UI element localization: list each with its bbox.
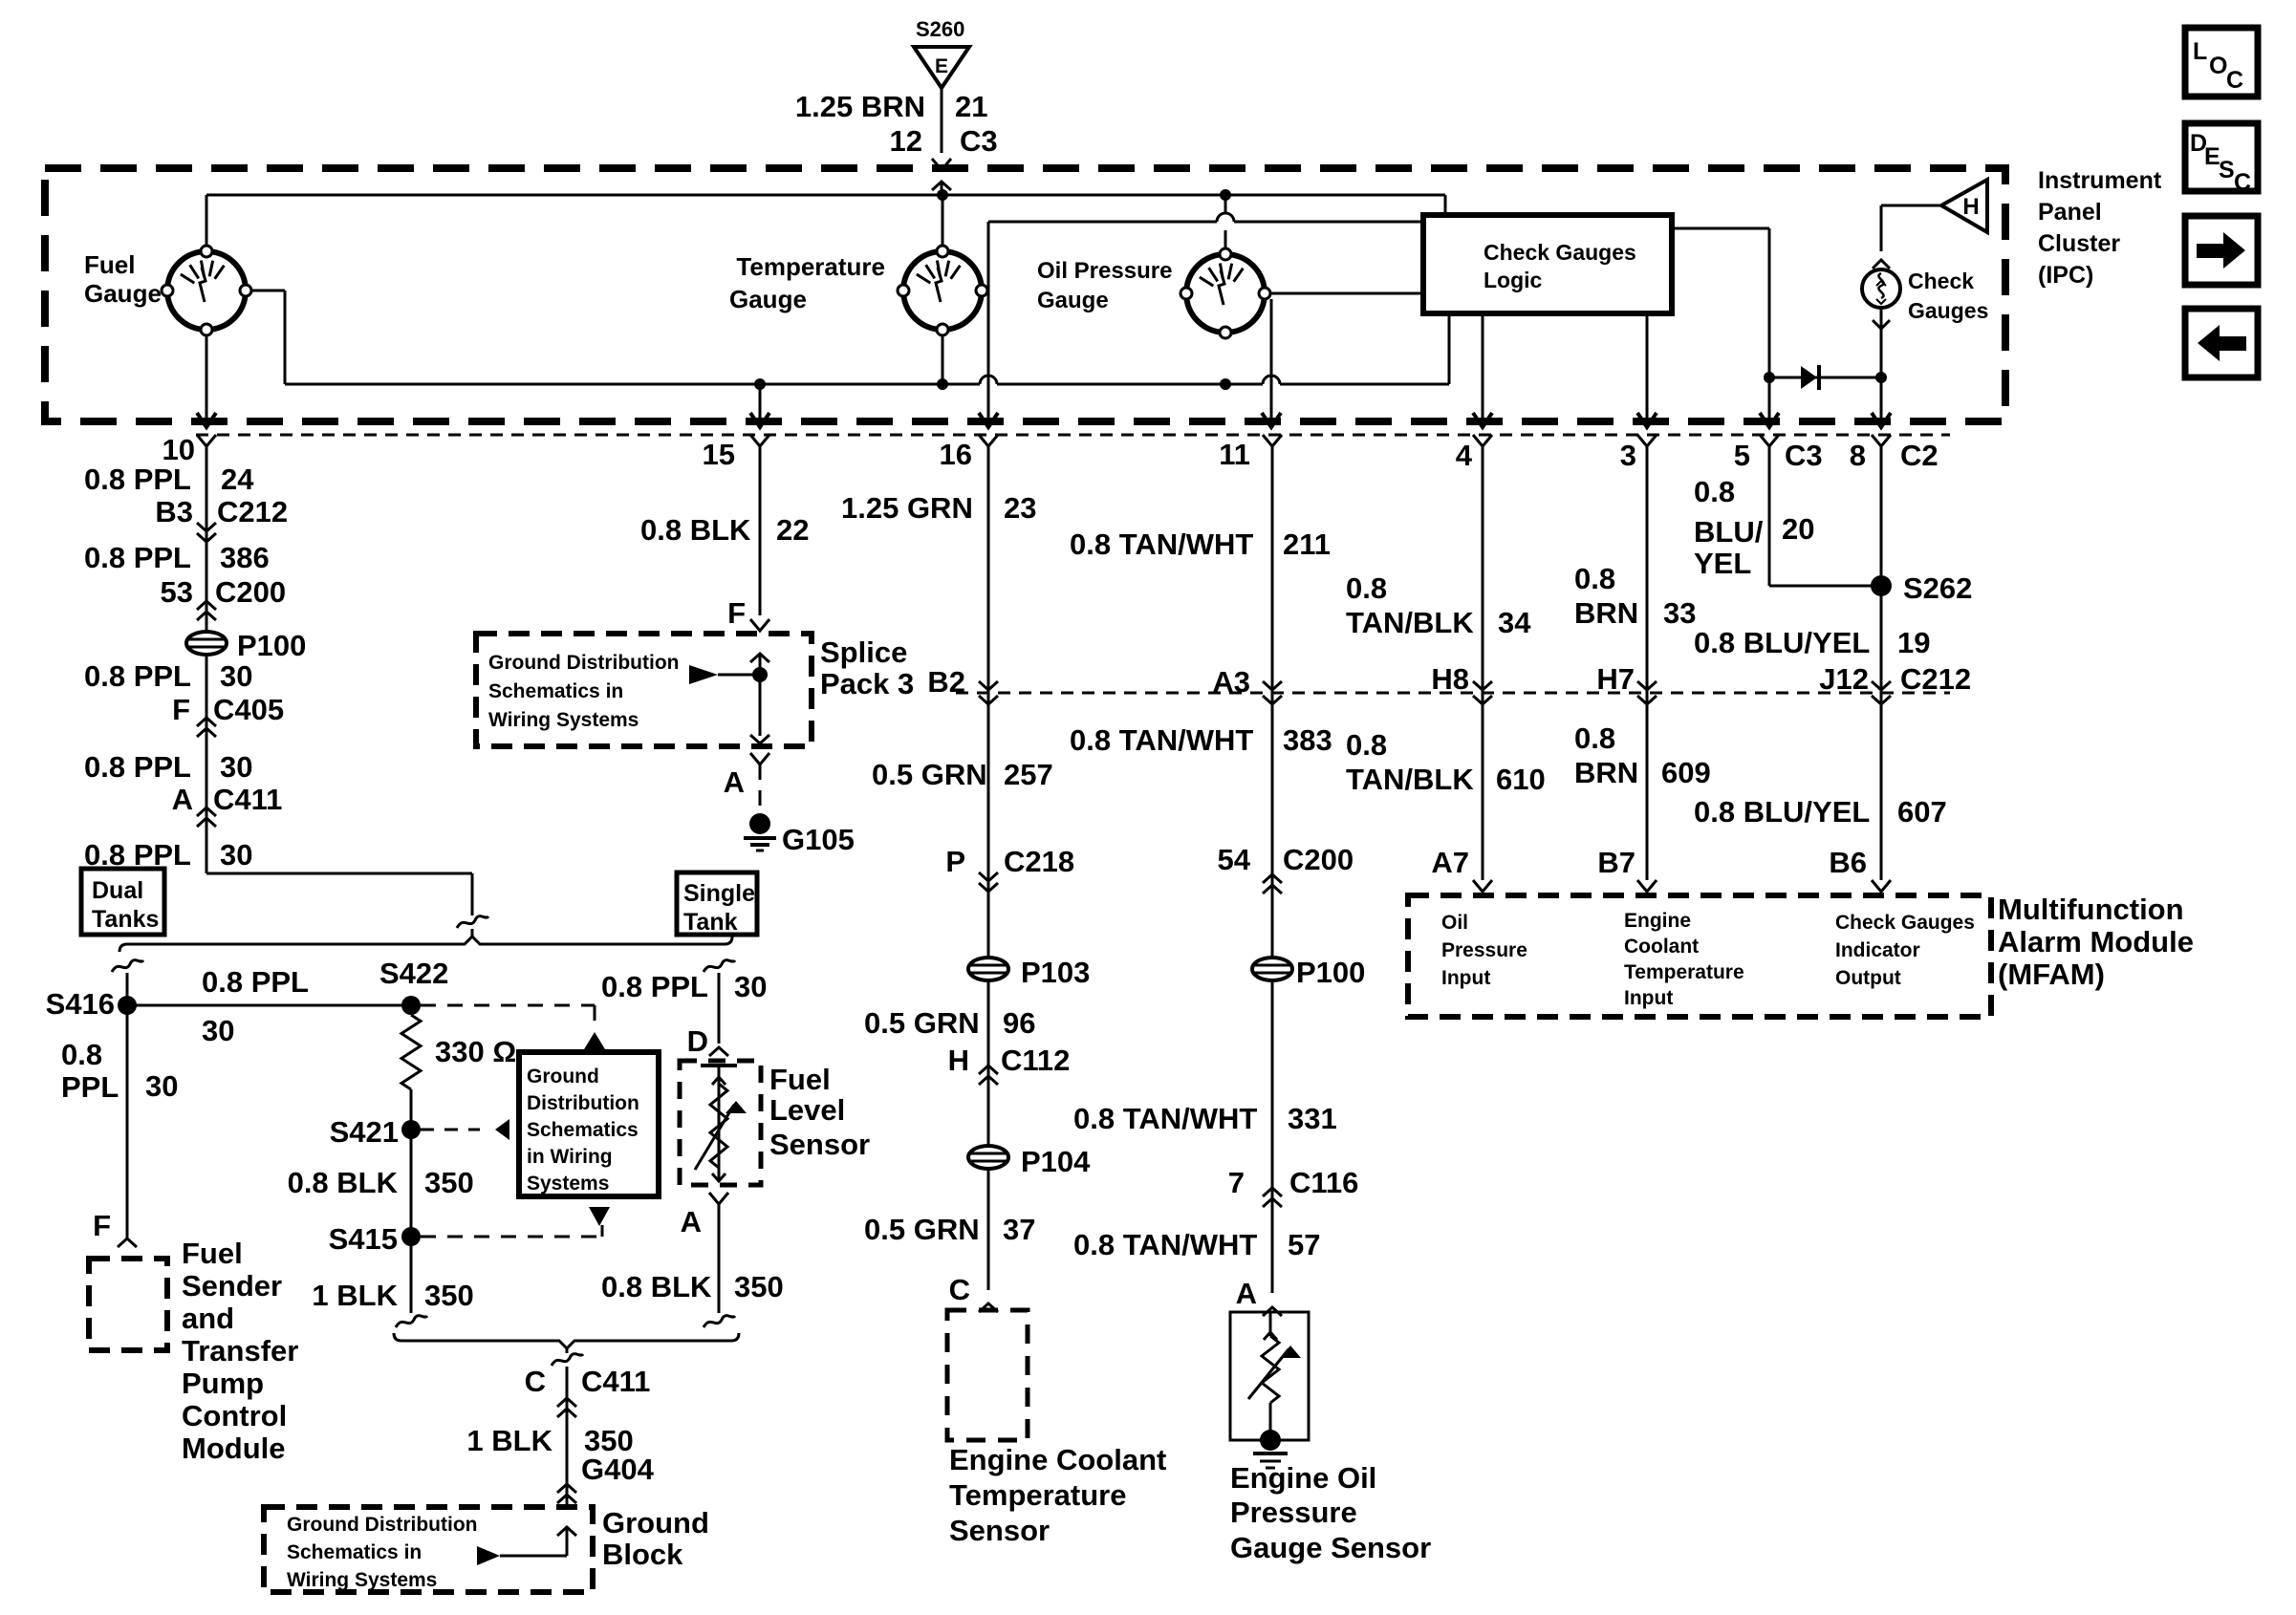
svg-text:TAN/BLK: TAN/BLK: [1346, 606, 1474, 639]
svg-text:1.25 BRN: 1.25 BRN: [795, 90, 925, 123]
svg-text:54: 54: [1218, 843, 1251, 876]
svg-text:1 BLK: 1 BLK: [466, 1424, 552, 1457]
svg-text:Temperature: Temperature: [1624, 961, 1744, 983]
svg-text:Multifunction: Multifunction: [1998, 893, 2184, 926]
svg-text:S422: S422: [379, 957, 448, 990]
svg-text:Gauges: Gauges: [1908, 298, 1988, 323]
svg-text:in Wiring: in Wiring: [527, 1146, 613, 1168]
svg-text:Pack 3: Pack 3: [820, 667, 914, 700]
svg-text:Module: Module: [182, 1432, 286, 1465]
svg-text:0.8 BLK: 0.8 BLK: [640, 513, 751, 547]
svg-text:Transfer: Transfer: [182, 1334, 298, 1367]
svg-text:0.8 BLU/YEL: 0.8 BLU/YEL: [1694, 626, 1870, 659]
svg-text:C200: C200: [1283, 843, 1354, 876]
svg-text:0.8 PPL: 0.8 PPL: [84, 463, 191, 496]
svg-text:Schematics in: Schematics in: [287, 1541, 422, 1563]
svg-text:Panel: Panel: [2038, 199, 2102, 226]
svg-text:Check Gauges: Check Gauges: [1835, 912, 1975, 934]
svg-text:H: H: [1962, 194, 1979, 220]
svg-text:19: 19: [1897, 626, 1930, 659]
svg-text:0.8 BLU/YEL: 0.8 BLU/YEL: [1694, 795, 1870, 829]
svg-text:8: 8: [1850, 439, 1866, 472]
svg-text:Level: Level: [769, 1093, 845, 1127]
svg-text:PPL: PPL: [61, 1070, 119, 1104]
svg-text:P100: P100: [1296, 956, 1365, 989]
svg-text:0.8 TAN/WHT: 0.8 TAN/WHT: [1070, 528, 1253, 561]
svg-text:Temperature: Temperature: [736, 252, 885, 281]
svg-text:Alarm Module: Alarm Module: [1998, 925, 2194, 958]
svg-text:Logic: Logic: [1484, 268, 1543, 292]
svg-text:Output: Output: [1835, 967, 1901, 989]
svg-text:3: 3: [1620, 439, 1636, 472]
svg-text:Schematics in: Schematics in: [488, 680, 623, 702]
svg-text:and: and: [182, 1302, 234, 1335]
svg-text:P100: P100: [237, 629, 306, 662]
svg-text:Single: Single: [683, 880, 755, 907]
svg-text:30: 30: [202, 1014, 234, 1047]
svg-text:30: 30: [220, 750, 252, 784]
svg-text:0.8: 0.8: [1574, 562, 1615, 595]
svg-text:BLU/: BLU/: [1694, 515, 1764, 549]
svg-text:C411: C411: [581, 1365, 650, 1398]
svg-text:Systems: Systems: [527, 1173, 609, 1195]
svg-text:F: F: [727, 596, 746, 630]
svg-text:F: F: [93, 1209, 111, 1242]
svg-text:(IPC): (IPC): [2038, 262, 2093, 289]
svg-text:Oil Pressure: Oil Pressure: [1037, 258, 1172, 284]
svg-text:YEL: YEL: [1694, 547, 1751, 580]
svg-text:0.5 GRN: 0.5 GRN: [864, 1213, 980, 1246]
svg-text:Check Gauges: Check Gauges: [1484, 240, 1636, 265]
svg-text:20: 20: [1782, 512, 1814, 546]
svg-text:0.8 BLK: 0.8 BLK: [601, 1270, 712, 1303]
svg-text:TAN/BLK: TAN/BLK: [1346, 763, 1474, 796]
svg-text:Cluster: Cluster: [2038, 230, 2120, 257]
svg-text:BRN: BRN: [1574, 596, 1638, 630]
svg-text:Tanks: Tanks: [92, 906, 159, 933]
svg-text:Gauge: Gauge: [84, 279, 162, 308]
svg-text:Control: Control: [182, 1399, 287, 1432]
svg-text:0.8: 0.8: [61, 1038, 102, 1071]
svg-text:C405: C405: [213, 693, 284, 726]
svg-text:A3: A3: [1212, 665, 1250, 699]
svg-text:Sensor: Sensor: [769, 1128, 870, 1161]
svg-text:211: 211: [1283, 528, 1331, 561]
svg-text:0.8: 0.8: [1346, 571, 1387, 605]
svg-text:23: 23: [1004, 491, 1036, 525]
svg-text:610: 610: [1496, 763, 1546, 796]
svg-text:37: 37: [1003, 1213, 1035, 1246]
svg-text:Pump: Pump: [182, 1367, 264, 1400]
svg-text:Splice: Splice: [820, 635, 907, 669]
svg-text:350: 350: [424, 1166, 474, 1199]
svg-text:P: P: [945, 845, 965, 878]
svg-text:Indicator: Indicator: [1835, 939, 1920, 961]
svg-text:A: A: [172, 783, 193, 816]
svg-text:0.8 PPL: 0.8 PPL: [202, 965, 309, 999]
svg-text:G404: G404: [581, 1453, 655, 1486]
svg-text:A: A: [681, 1205, 702, 1238]
svg-text:12: 12: [890, 124, 922, 158]
svg-text:S421: S421: [330, 1115, 399, 1149]
svg-text:C116: C116: [1289, 1166, 1358, 1199]
svg-text:Gauge: Gauge: [1037, 288, 1109, 313]
svg-text:609: 609: [1661, 756, 1711, 789]
svg-text:C218: C218: [1004, 845, 1074, 878]
svg-text:Oil: Oil: [1441, 912, 1468, 934]
svg-text:0.8 PPL: 0.8 PPL: [84, 659, 191, 693]
svg-text:B2: B2: [927, 665, 965, 699]
svg-text:Ground: Ground: [602, 1506, 709, 1540]
svg-text:A: A: [1236, 1277, 1257, 1310]
svg-text:30: 30: [145, 1069, 178, 1103]
svg-text:96: 96: [1003, 1006, 1035, 1040]
svg-text:B3: B3: [155, 495, 193, 528]
svg-text:(MFAM): (MFAM): [1998, 958, 2105, 991]
svg-text:11: 11: [1219, 438, 1250, 471]
svg-text:C212: C212: [1900, 662, 1971, 696]
svg-text:C: C: [2234, 169, 2251, 196]
svg-text:0.8: 0.8: [1694, 475, 1735, 508]
svg-text:0.8 BLK: 0.8 BLK: [288, 1166, 399, 1199]
svg-text:Ground: Ground: [527, 1066, 599, 1087]
svg-text:34: 34: [1498, 606, 1531, 639]
svg-text:0.8 TAN/WHT: 0.8 TAN/WHT: [1070, 723, 1253, 757]
svg-text:C411: C411: [213, 783, 282, 816]
svg-text:Sensor: Sensor: [949, 1514, 1050, 1547]
svg-text:BRN: BRN: [1574, 756, 1638, 789]
svg-text:C3: C3: [960, 124, 998, 158]
svg-text:0.5 GRN: 0.5 GRN: [872, 758, 987, 791]
svg-text:Pressure: Pressure: [1441, 939, 1527, 961]
svg-text:A7: A7: [1431, 846, 1469, 879]
svg-text:57: 57: [1288, 1228, 1320, 1261]
svg-text:H7: H7: [1596, 662, 1635, 696]
svg-text:0.8 PPL: 0.8 PPL: [84, 541, 191, 574]
svg-text:Input: Input: [1441, 967, 1490, 989]
svg-text:10: 10: [162, 433, 195, 466]
svg-text:Coolant: Coolant: [1624, 936, 1699, 958]
svg-text:Engine: Engine: [1624, 910, 1691, 932]
svg-text:Check: Check: [1908, 269, 1974, 293]
svg-text:Wiring Systems: Wiring Systems: [488, 709, 639, 731]
svg-text:C: C: [2226, 67, 2243, 94]
svg-text:Temperature: Temperature: [949, 1478, 1127, 1512]
svg-text:Fuel: Fuel: [84, 250, 135, 279]
svg-text:331: 331: [1288, 1102, 1337, 1135]
svg-text:Wiring Systems: Wiring Systems: [287, 1569, 437, 1591]
svg-text:J12: J12: [1819, 662, 1869, 696]
svg-text:S416: S416: [46, 987, 115, 1021]
svg-text:350: 350: [424, 1279, 474, 1312]
svg-text:B6: B6: [1829, 846, 1867, 879]
svg-text:Schematics: Schematics: [527, 1119, 639, 1141]
svg-text:0.8: 0.8: [1574, 721, 1615, 755]
svg-text:Fuel: Fuel: [182, 1237, 243, 1270]
svg-text:30: 30: [220, 659, 252, 693]
svg-text:350: 350: [734, 1270, 784, 1303]
svg-text:Gauge: Gauge: [729, 285, 807, 313]
svg-text:H8: H8: [1431, 662, 1469, 696]
svg-text:33: 33: [1663, 596, 1696, 630]
svg-text:30: 30: [220, 838, 252, 872]
svg-text:C200: C200: [215, 575, 286, 609]
svg-text:Input: Input: [1624, 987, 1673, 1009]
svg-text:A: A: [724, 765, 745, 799]
svg-text:4: 4: [1456, 439, 1473, 472]
svg-text:Ground Distribution: Ground Distribution: [488, 652, 679, 674]
svg-text:0.8 PPL: 0.8 PPL: [84, 750, 191, 784]
svg-text:1.25 GRN: 1.25 GRN: [841, 491, 973, 525]
svg-text:607: 607: [1897, 795, 1947, 829]
svg-text:S: S: [2219, 157, 2235, 183]
svg-text:L: L: [2193, 38, 2207, 65]
svg-text:21: 21: [955, 90, 987, 123]
svg-text:C112: C112: [1001, 1044, 1070, 1077]
svg-text:C2: C2: [1900, 439, 1939, 472]
svg-text:Block: Block: [602, 1538, 683, 1571]
svg-text:Dual: Dual: [92, 877, 143, 904]
svg-text:1 BLK: 1 BLK: [312, 1279, 398, 1312]
svg-text:F: F: [172, 693, 190, 726]
svg-text:P104: P104: [1021, 1145, 1091, 1178]
svg-text:Fuel: Fuel: [769, 1063, 831, 1096]
svg-text:22: 22: [776, 513, 809, 547]
svg-text:Gauge Sensor: Gauge Sensor: [1230, 1531, 1431, 1564]
svg-text:386: 386: [220, 541, 270, 574]
svg-text:S415: S415: [329, 1222, 398, 1256]
svg-text:330 Ω: 330 Ω: [435, 1035, 516, 1068]
svg-text:7: 7: [1228, 1166, 1245, 1199]
svg-text:E: E: [935, 55, 948, 77]
svg-text:24: 24: [221, 463, 254, 496]
svg-text:H: H: [948, 1044, 969, 1077]
svg-text:B7: B7: [1597, 846, 1635, 879]
svg-text:16: 16: [940, 438, 972, 471]
svg-text:383: 383: [1283, 723, 1332, 757]
svg-text:Tank: Tank: [683, 909, 738, 936]
svg-text:0.8 TAN/WHT: 0.8 TAN/WHT: [1073, 1228, 1257, 1261]
svg-text:C3: C3: [1785, 439, 1823, 472]
svg-text:S262: S262: [1903, 571, 1972, 605]
svg-text:Sender: Sender: [182, 1269, 282, 1303]
svg-text:0.8 TAN/WHT: 0.8 TAN/WHT: [1073, 1102, 1257, 1135]
svg-text:15: 15: [703, 438, 735, 471]
svg-text:D: D: [687, 1024, 708, 1058]
svg-text:257: 257: [1004, 758, 1053, 791]
svg-text:O: O: [2209, 53, 2227, 79]
svg-text:Engine Oil: Engine Oil: [1230, 1461, 1376, 1495]
svg-text:30: 30: [734, 970, 767, 1003]
svg-text:Pressure: Pressure: [1230, 1496, 1357, 1529]
svg-text:C: C: [949, 1273, 970, 1306]
svg-text:5: 5: [1734, 439, 1750, 472]
svg-text:C: C: [525, 1365, 546, 1398]
svg-text:S260: S260: [916, 17, 964, 41]
svg-text:Ground Distribution: Ground Distribution: [287, 1514, 477, 1536]
svg-text:0.8: 0.8: [1346, 728, 1387, 762]
svg-text:C212: C212: [217, 495, 288, 528]
svg-text:0.5 GRN: 0.5 GRN: [864, 1006, 980, 1040]
svg-text:G105: G105: [782, 823, 855, 856]
svg-text:Instrument: Instrument: [2038, 167, 2162, 194]
svg-text:Engine Coolant: Engine Coolant: [949, 1443, 1166, 1476]
svg-text:53: 53: [161, 575, 193, 609]
svg-text:0.8 PPL: 0.8 PPL: [601, 970, 708, 1003]
svg-text:Distribution: Distribution: [527, 1092, 639, 1114]
svg-text:P103: P103: [1021, 956, 1090, 989]
